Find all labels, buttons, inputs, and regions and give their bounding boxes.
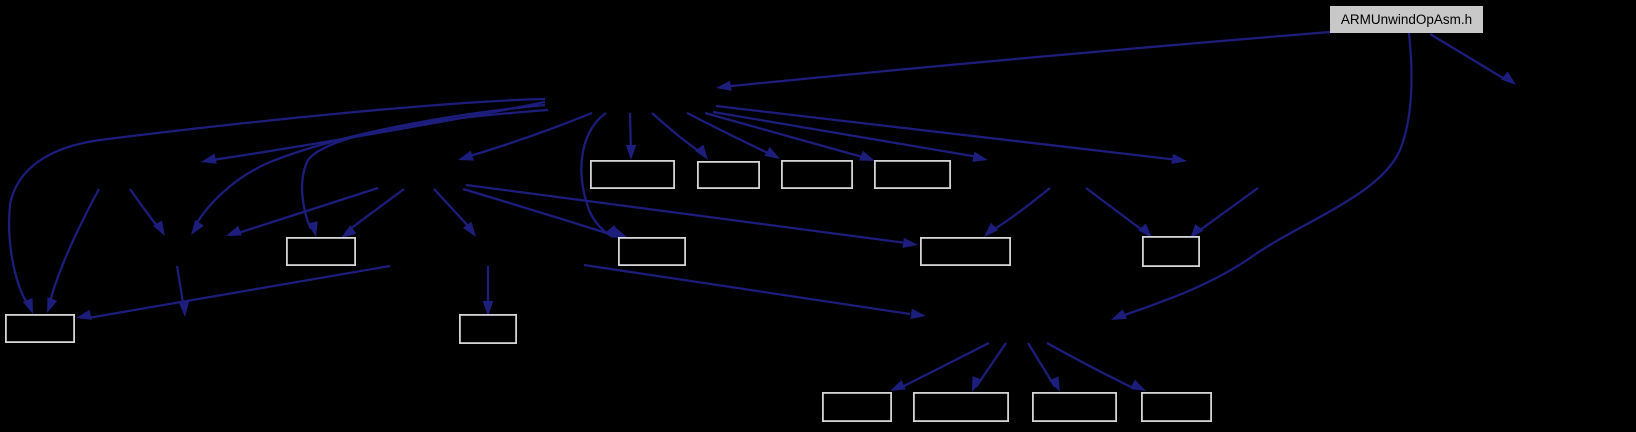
svg-text:ARMUnwindOpAsm.h: ARMUnwindOpAsm.h	[1341, 12, 1472, 27]
